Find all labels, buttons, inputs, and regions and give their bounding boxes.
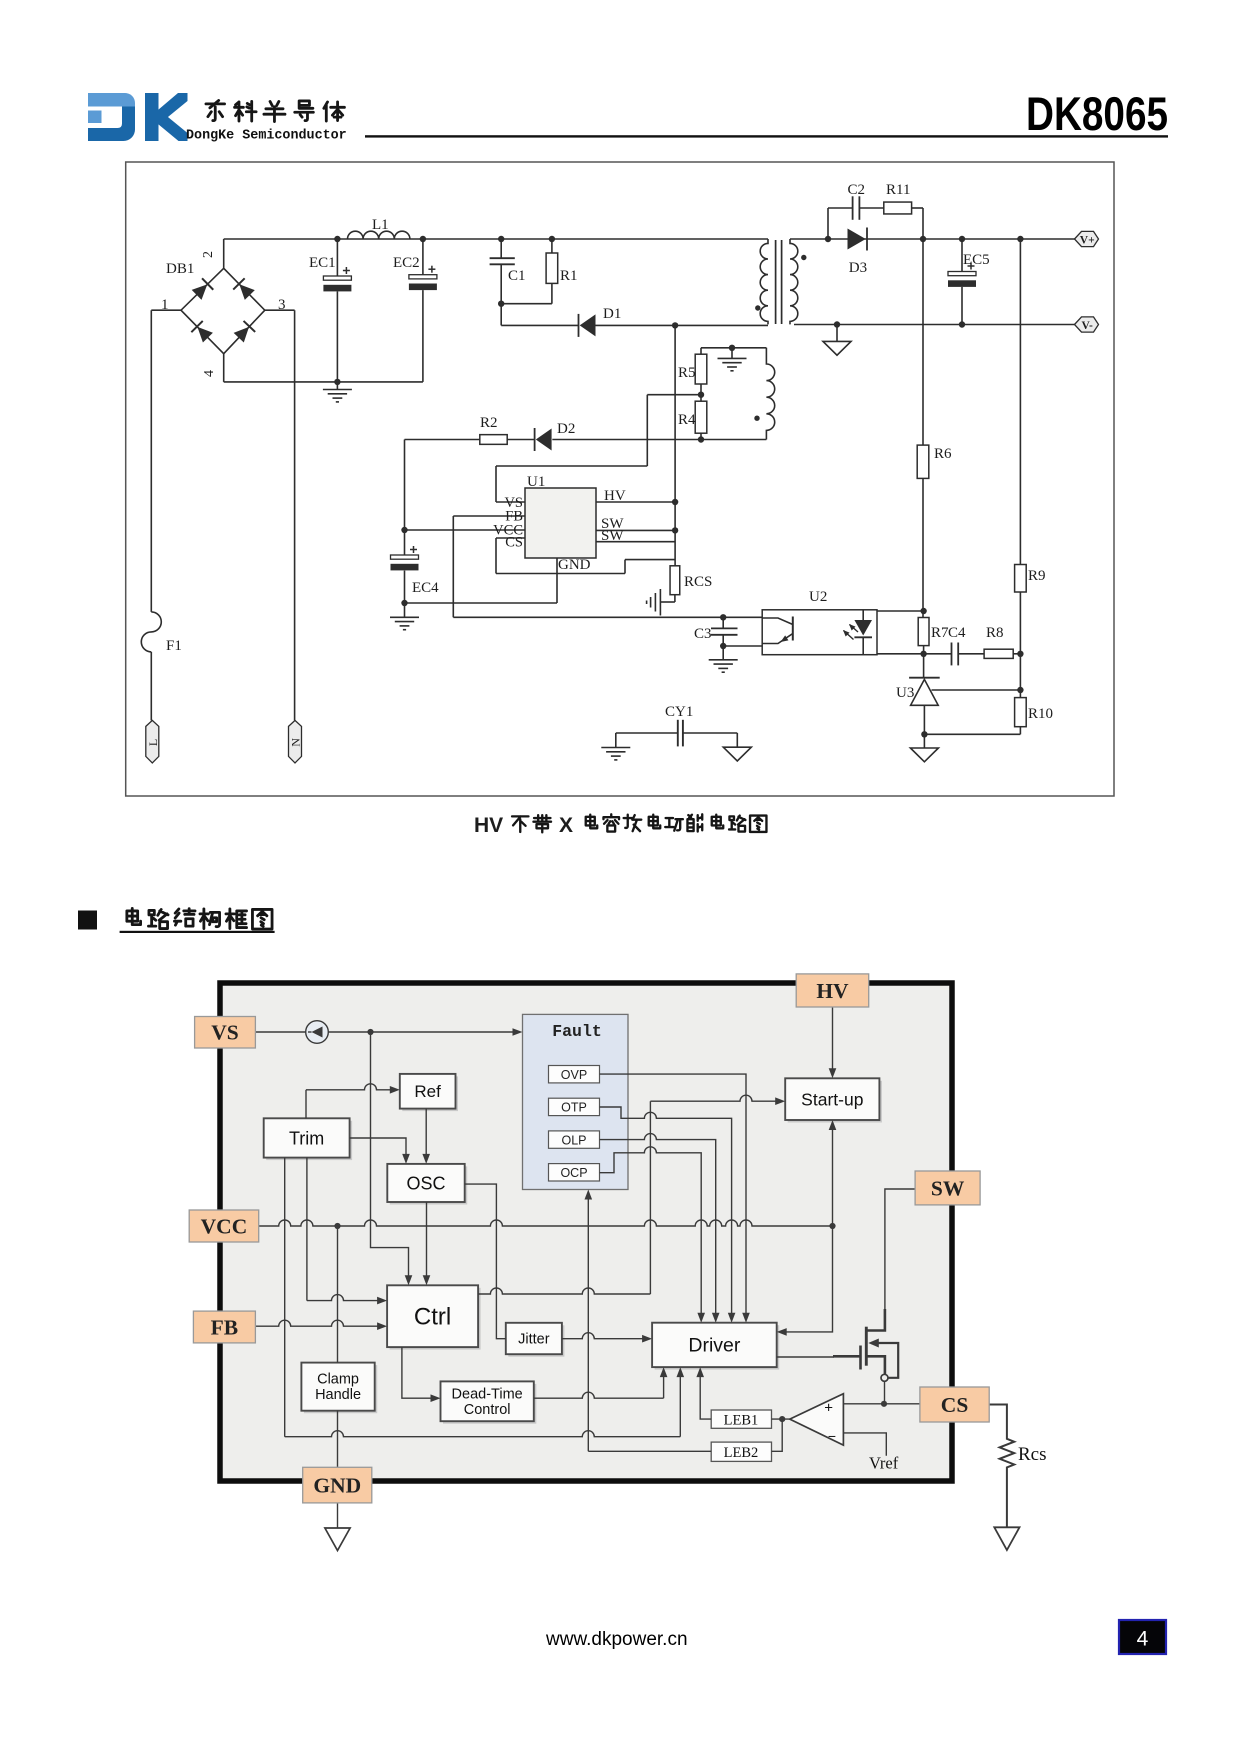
svg-text:DB1: DB1 [166,261,194,277]
svg-text:www.dkpower.cn: www.dkpower.cn [545,1629,688,1650]
svg-text:Fault: Fault [552,1022,602,1041]
svg-text:L1: L1 [372,217,389,233]
svg-text:C1: C1 [508,268,526,284]
svg-text:Start-up: Start-up [801,1089,863,1109]
svg-text:U1: U1 [527,474,545,490]
svg-text:CY1: CY1 [665,704,693,720]
svg-text:VCC: VCC [201,1214,248,1238]
svg-text:F1: F1 [166,638,182,654]
svg-text:D3: D3 [849,260,867,276]
svg-text:VS: VS [211,1021,239,1045]
svg-text:GND: GND [313,1473,361,1497]
svg-text:Jitter: Jitter [518,1332,550,1348]
svg-text:OCP: OCP [560,1166,587,1180]
svg-text:+: + [824,1400,833,1417]
svg-text:4: 4 [202,370,217,377]
svg-text:R2: R2 [480,415,498,431]
svg-text:DK8065: DK8065 [1026,87,1168,140]
svg-text:C4: C4 [948,625,966,641]
svg-text:Ctrl: Ctrl [414,1304,451,1331]
svg-text:OSC: OSC [406,1173,445,1193]
svg-text:R10: R10 [1028,706,1053,722]
svg-text:Control: Control [464,1402,511,1418]
svg-text:R9: R9 [1028,568,1046,584]
svg-text:R6: R6 [934,446,952,462]
svg-text:Trim: Trim [289,1128,324,1148]
svg-text:R11: R11 [886,182,910,198]
svg-text:R5: R5 [678,365,696,381]
svg-text:HV: HV [474,814,503,837]
svg-text:LEB1: LEB1 [724,1412,759,1428]
svg-text:DongKe Semiconductor: DongKe Semiconductor [186,129,347,144]
svg-text:Driver: Driver [688,1335,741,1357]
svg-text:OTP: OTP [561,1101,587,1115]
svg-text:RCS: RCS [684,574,712,590]
svg-text:EC1: EC1 [309,255,336,271]
svg-text:EC4: EC4 [412,580,439,596]
svg-text:Vref: Vref [869,1454,899,1473]
svg-text:R4: R4 [678,412,696,428]
svg-text:R1: R1 [560,268,578,284]
svg-text:C2: C2 [848,182,866,198]
svg-text:EC5: EC5 [963,252,990,268]
svg-text:HV: HV [604,488,626,504]
svg-text:EC2: EC2 [393,255,420,271]
svg-text:Rcs: Rcs [1018,1444,1047,1465]
svg-text:HV: HV [816,979,849,1003]
svg-text:C3: C3 [694,626,712,642]
svg-text:U2: U2 [809,589,827,605]
svg-text:N: N [289,738,303,747]
svg-text:Handle: Handle [315,1387,361,1403]
svg-text:3: 3 [278,297,286,313]
svg-text:CS: CS [505,535,523,551]
svg-text:GND: GND [558,557,591,573]
svg-text:−: − [828,1428,836,1444]
svg-text:Clamp: Clamp [317,1372,359,1388]
svg-text:LEB2: LEB2 [724,1445,759,1461]
svg-text:X: X [559,814,573,837]
svg-text:1: 1 [161,297,169,313]
svg-text:SW: SW [931,1176,965,1200]
svg-text:FB: FB [211,1315,238,1339]
svg-text:R7: R7 [931,625,949,641]
svg-text:OLP: OLP [561,1133,586,1147]
svg-text:2: 2 [201,251,216,258]
svg-text:SW: SW [601,528,624,544]
svg-text:U3: U3 [896,685,914,701]
svg-text:CS: CS [941,1393,969,1417]
svg-text:D1: D1 [603,306,621,322]
svg-text:R8: R8 [986,625,1004,641]
svg-text:Ref: Ref [414,1082,441,1101]
svg-text:Dead-Time: Dead-Time [452,1386,523,1402]
svg-text:D2: D2 [557,421,575,437]
svg-text:V-: V- [1082,320,1093,332]
svg-text:4: 4 [1137,1628,1149,1651]
svg-text:L: L [146,739,160,746]
svg-text:V+: V+ [1080,234,1095,246]
svg-text:OVP: OVP [561,1068,587,1082]
